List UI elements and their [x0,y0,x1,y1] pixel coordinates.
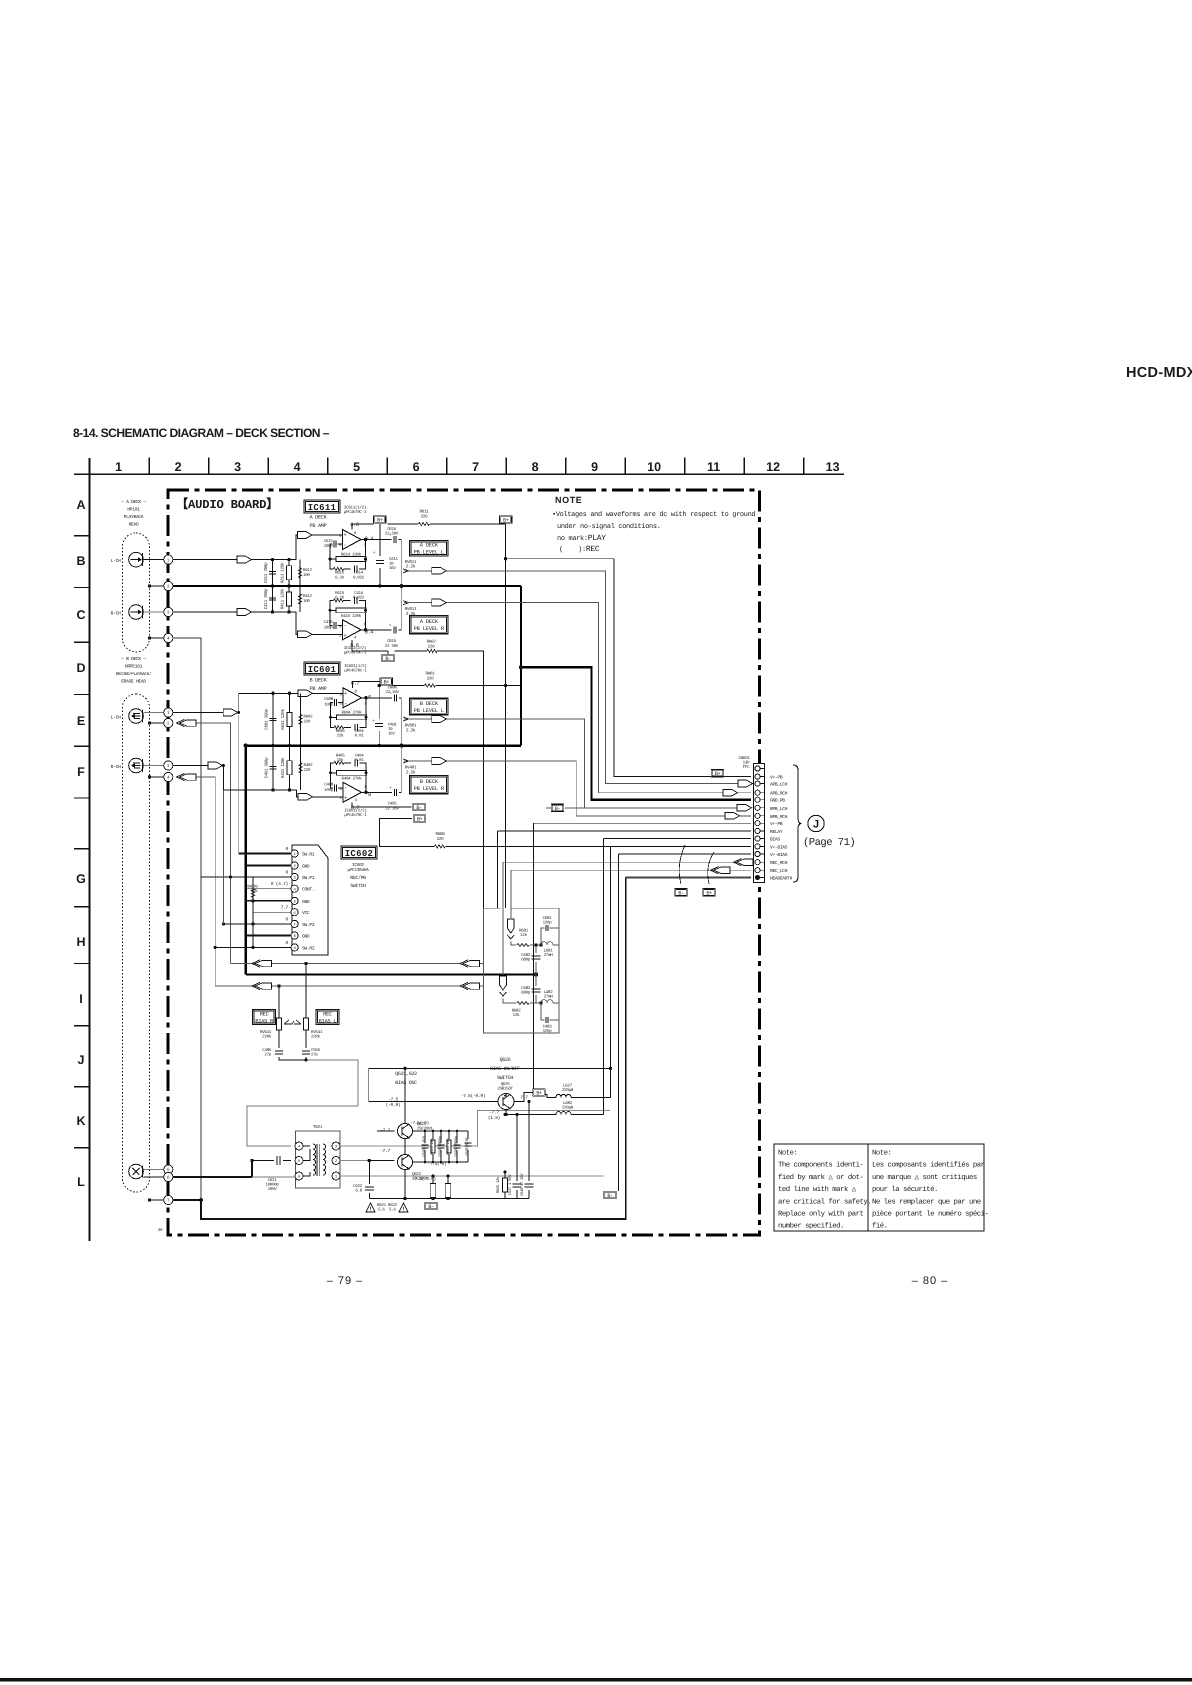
svg-text:REC/PB: REC/PB [350,875,366,881]
svg-text:BIAS: BIAS [770,837,780,843]
svg-text:220: 220 [304,768,311,773]
warning triangle 2 [399,1203,408,1212]
B+ rail IC611 [380,524,506,548]
svg-text:2.2k: 2.2k [406,728,416,734]
svg-text:C415: C415 [324,620,334,625]
connector brace [793,765,802,882]
wire erase head to pin 6 [143,1176,163,1178]
down arrow 1 [507,919,514,939]
svg-text:R621: R621 [377,1203,387,1208]
U-B1 IC601a level pot [401,698,403,746]
APB LCH run [404,571,751,784]
svg-text:27p: 27p [311,1053,318,1058]
svg-text:7: 7 [293,923,295,928]
svg-text:220: 220 [427,676,435,681]
V+ PB run [506,559,751,777]
CN601 pin 9 [755,828,760,833]
Q621 transistor [398,1124,413,1139]
C683 cap [535,975,537,1004]
svg-text:HP101: HP101 [127,507,140,513]
B+ box below arcs [703,889,716,897]
svg-text:100p: 100p [324,788,334,793]
svg-text:!: ! [369,1206,372,1213]
U-A2 IC611b output coupling cap [394,626,396,633]
U-A2 IC611b output wire [361,629,402,631]
Q622 base wire [369,1160,394,1162]
svg-text:C611 390p: C611 390p [264,562,269,583]
svg-text:5.6: 5.6 [389,1208,396,1213]
BPB LCH arrow near pin [737,804,752,811]
U-B2 IC601b output coupling cap [394,789,396,796]
IC611 supply decoupling cap CA11 [379,548,381,586]
svg-text:PB LEVEL R: PB LEVEL R [414,626,445,632]
wire pot to link [305,1057,307,1060]
U-B2 IC601b minus input cap [331,773,344,788]
svg-text:120p: 120p [543,1029,553,1034]
RV641 pot [279,986,306,1060]
BPB LCH run [404,719,751,808]
U-B2 IC601b feedback RC network [331,763,367,773]
svg-text:220: 220 [428,644,435,649]
T621 pin 4 [295,1142,303,1150]
svg-text:C41A: C41A [354,591,364,596]
svg-text:8: 8 [532,460,539,474]
bias osc voltage labels [403,1067,406,1070]
svg-text:Note:: Note: [778,1150,797,1158]
svg-text:B+: B+ [377,518,383,524]
T621 pin3 wire right [340,1111,603,1147]
svg-text:C621: C621 [268,1178,278,1183]
svg-text:F: F [77,765,85,779]
svg-text:B+: B+ [706,890,712,896]
U-B2 IC601b level pot [401,746,403,793]
svg-text:0.022: 0.022 [353,596,365,601]
U-A2 IC611b bias resistor [299,586,301,612]
wire link 1106 [247,1060,358,1146]
V+ PB supply run lower [533,823,751,1089]
svg-text:B DECK: B DECK [420,701,439,707]
svg-text:100V: 100V [268,1187,278,1192]
U-A1 IC611a feedback RC network [330,559,366,569]
REC BIAS R box [253,1010,276,1025]
R621 resistor [432,1176,434,1199]
BPB RCH run [404,761,751,816]
svg-text:Note:: Note: [872,1150,891,1158]
U-A1 IC611a input shunt resistor [288,560,290,586]
bias run [603,839,750,1111]
svg-text:R431 120k: R431 120k [280,757,286,778]
R625 resistor [504,1172,506,1199]
svg-text:HRPE101: HRPE101 [125,664,143,670]
U-A1 IC611a input shunt cap [272,560,274,586]
C682 cap [535,945,537,975]
svg-text:RV541: RV541 [311,1030,323,1035]
svg-text:H: H [76,935,85,949]
T621 pin 1 [332,1172,340,1180]
svg-text:CR16: CR16 [387,527,397,532]
svg-text:D: D [76,661,85,675]
A deck PB level R box [410,616,448,634]
svg-text:120p: 120p [543,921,553,926]
svg-text:V+-BIAS: V+-BIAS [770,844,788,850]
svg-text:R681: R681 [519,929,529,934]
svg-text:R612: R612 [303,568,313,573]
IC602 pin 9 SW.R2 [291,944,298,951]
B+ supply box IC601 lower [413,815,426,823]
APB LCH arrow near pin [738,780,753,787]
B deck PB level L box [410,698,448,715]
svg-text:R415: R415 [335,591,345,596]
svg-text:SW.R1: SW.R1 [302,852,315,858]
A-deck edge pin 1 [164,555,173,564]
svg-text:V+-PB: V+-PB [770,821,783,827]
svg-text:VCC: VCC [302,910,310,916]
svg-text:C485: C485 [262,1048,272,1053]
svg-text:G: G [76,872,86,886]
A deck L-CH head coil [129,552,144,567]
wire erase head to pin 5 [143,1169,163,1171]
svg-text:•Voltages and waveforms are dc: •Voltages and waveforms are dc with resp… [552,511,755,519]
svg-text:CR0N: CR0N [388,685,398,690]
B+ box on V+PB pin wire [711,769,724,777]
svg-text:0.01: 0.01 [355,734,365,739]
B- box on BPB LCH wire [551,804,564,812]
svg-text:ERASE HEAD: ERASE HEAD [121,679,146,685]
C681 cap [541,928,559,945]
svg-text:PB AMP: PB AMP [310,686,327,692]
U-A2 IC611b input signal arrow 1 [237,609,252,616]
REC BIAS L box [316,1010,339,1025]
svg-text:FFC: FFC [743,765,750,770]
audio board dash-dot border [168,490,760,1235]
B- wire IC601 [352,802,412,807]
svg-text:BIAS OSC: BIAS OSC [395,1080,417,1086]
svg-text:5: 5 [353,460,360,474]
B+ supply box right [500,516,513,524]
svg-text:IC602: IC602 [345,849,374,859]
svg-text:The components identi-: The components identi- [778,1161,863,1170]
svg-text:A DECK: A DECK [310,515,328,521]
svg-text:C405: C405 [388,802,398,807]
B deck record/playback/erase head outline [123,694,150,1192]
svg-text:APB_RCH: APB_RCH [770,791,788,797]
C555 cap [302,1051,310,1054]
CN601 pin 15 [755,875,760,880]
L627 inductor [545,1094,610,1097]
svg-text:R605: R605 [336,729,346,734]
svg-text:3: 3 [234,460,241,474]
B- box right [604,1191,617,1199]
APB RCH run [404,603,751,793]
U-A1 IC611a input signal arrow 2 [298,532,313,539]
A deck R-CH head coil [129,605,144,620]
svg-text:Replace only with part: Replace only with part [778,1210,863,1219]
U-B1 IC601a bias resistor [300,693,302,745]
svg-text:RELAY: RELAY [770,829,783,835]
svg-text:fié.: fié. [872,1222,888,1231]
svg-text:L-CH: L-CH [111,558,121,564]
T621 primary winding [313,1144,316,1175]
IC602 pin 2 GND [291,862,298,869]
svg-text:µPC4570C-1: µPC4570C-1 [344,510,367,515]
svg-text:0.01: 0.01 [355,758,365,763]
svg-text:220: 220 [421,514,429,519]
svg-text:C614: C614 [354,571,364,576]
svg-text:C401 390p: C401 390p [265,757,270,778]
svg-text:REC_LCH: REC_LCH [770,868,788,874]
CN601 pin 14 [755,868,760,873]
Q622 transistor [398,1155,413,1170]
crossing arc B- [679,845,685,884]
svg-text:une marque △ sont critiques: une marque △ sont critiques [872,1173,977,1182]
wire B-deck shield to pin 2 [148,721,151,724]
svg-text:7.7: 7.7 [281,905,289,911]
svg-text:GND_PB: GND_PB [770,798,785,804]
svg-text:L682: L682 [563,1101,573,1106]
page reference circle J [808,815,824,831]
headearth ground loop [173,878,626,1220]
svg-text:are critical for safety.: are critical for safety. [778,1197,871,1206]
svg-text:C: C [76,608,85,622]
U-A2 IC611b input shunt resistor [288,586,290,612]
U-B1 IC601a minus input cap [331,702,344,717]
IC602 pin 6 VCC [291,909,298,916]
svg-text:220µH: 220µH [562,1106,574,1111]
U-A2 IC611b feedback resistor [330,610,366,630]
B+ long vertical feed [505,524,507,908]
thick ground to connector [521,667,751,799]
R622 resistor [447,1176,449,1199]
op-amp U-B2 IC601b [343,782,362,802]
A-deck edge pin 3 [164,607,173,616]
bias emitter rail [369,1198,529,1200]
T621 pin 6 [295,1172,303,1180]
CN601 pin 11 [755,844,760,849]
svg-text:E: E [77,714,85,728]
svg-text:— A DECK —: — A DECK — [120,499,146,505]
U-A1 IC611a input wire from head [173,535,343,560]
thick ground vertical [520,586,522,746]
Q621 collector wire [404,1068,406,1198]
svg-text:C613: C613 [324,539,334,544]
svg-text:C683: C683 [521,986,531,991]
svg-text:100p: 100p [324,544,334,549]
erase edge pin 5 [164,1165,173,1174]
svg-text:B+: B+ [536,1091,542,1097]
B+ supply box IC601 [380,678,393,686]
svg-text:+: + [343,632,346,639]
L682f coil [541,1000,559,1003]
svg-text:R-CH: R-CH [111,610,121,616]
svg-text:( ):REC: ( ):REC [559,545,600,554]
U-A2 IC611b input signal arrow 2 [298,631,313,638]
svg-text:B+: B+ [503,518,509,524]
svg-text:B+: B+ [417,817,423,823]
svg-text:C622: C622 [353,1184,363,1189]
B-deck edge pin 1 [164,708,173,717]
B-deck edge pin 4 [164,772,173,781]
wire A-deck R-CH to pin 3 [143,611,163,613]
U-B2 IC601b input signal arrow 1 [208,762,223,769]
svg-text:5.6: 5.6 [378,1208,385,1213]
svg-text:PB LEVEL L: PB LEVEL L [414,708,444,714]
Q625 B+ box [533,1089,546,1097]
svg-text:C404: C404 [355,754,365,759]
U-B1 IC601a input shunt resistor [289,693,291,745]
filter network outline [484,908,559,1033]
svg-text:J: J [78,1053,85,1067]
T621 pin1 wire right [340,1111,610,1177]
thick ground rail A deck [173,585,521,587]
IC611 label box [304,500,340,513]
svg-text:SW.P2: SW.P2 [302,922,315,928]
svg-text:Ne les remplacer que par une: Ne les remplacer que par une [872,1197,981,1206]
svg-text:L627: L627 [563,1084,573,1089]
svg-text:HCD-MDX: HCD-MDX [1126,365,1192,381]
svg-text:REC: REC [323,1011,332,1017]
svg-text:B-: B- [385,656,391,662]
svg-text:J: J [813,819,819,831]
svg-text:22 16V: 22 16V [385,690,399,695]
svg-text:7: 7 [472,460,479,474]
T621 pin 3 [332,1142,340,1150]
left axis row ticks [74,536,89,1148]
RA12 220 rail [394,651,483,908]
U-B1 IC601a input signal arrow 2 [298,690,313,697]
grid header ticks [149,458,804,475]
svg-text:100: 100 [303,599,310,604]
RV541 pot [305,964,307,1049]
svg-text:13: 13 [826,460,840,474]
T621 pin wires [303,1146,345,1176]
IC601 supply decoupling cap CA01 [378,686,380,746]
svg-text:V+-BIAS: V+-BIAS [770,852,788,858]
svg-text:– 80 –: – 80 – [912,1275,949,1287]
svg-text:L681: L681 [544,949,554,954]
svg-text:BIAS R: BIAS R [255,1018,273,1024]
REC LCH run [511,870,751,918]
svg-text:R631 120k: R631 120k [280,708,286,729]
U-B2 IC601b input shunt resistor [289,746,291,790]
svg-text:APB_LCH: APB_LCH [770,782,788,788]
B- rail IC611 [352,640,388,654]
CN601 pin 12 [755,851,760,856]
B deck R-CH head coil [129,758,144,773]
B-deck edge pin 3 [164,761,173,770]
A-deck edge pin 2 [164,581,173,590]
bank C624 [440,1131,442,1162]
crossing arc B+ [708,852,714,884]
CN601 pin 4 [755,790,760,795]
svg-text:L-CH: L-CH [111,714,121,720]
svg-text:9: 9 [591,460,598,474]
B-deck R record wire down [196,777,215,986]
svg-text:16V: 16V [389,566,396,571]
svg-text:-7.5(-0.9): -7.5(-0.9) [461,1093,486,1099]
U-B1 IC601a feedback RC network [331,717,367,727]
U-B1 IC601a input signal arrow 1 [223,709,238,716]
R681 resistor [511,942,541,946]
svg-text:µPC4570C-1: µPC4570C-1 [344,668,367,673]
svg-text:-: - [343,622,346,629]
svg-text:number specified.: number specified. [778,1222,844,1231]
relay run [497,831,751,908]
svg-text:K: K [76,1114,85,1128]
svg-text:C628 6.81: C628 6.81 [465,1136,470,1155]
svg-text:— B DECK —: — B DECK — [120,656,146,662]
svg-text:SWITCH: SWITCH [350,883,366,889]
svg-text:CA01: CA01 [388,723,397,728]
svg-text:PB LEVEL R: PB LEVEL R [414,786,445,792]
svg-text:R622: R622 [388,1203,398,1208]
U-A1 IC611a minus input cap [330,544,343,559]
svg-text:B+: B+ [384,680,390,686]
Q621 base wire [377,1130,395,1132]
svg-text:R611 120k: R611 120k [280,562,286,583]
CN601 pin 3 [755,781,760,786]
U-B1 IC601a input shunt cap [272,693,274,745]
U-B2 IC601b input wire from head [173,766,343,797]
svg-text:R623 10k: R623 10k [430,1137,435,1154]
connector CN601 body [754,764,765,883]
svg-text:BIAS L: BIAS L [319,1018,337,1024]
down arrow 2 [500,976,507,996]
op-amp U-A1 IC611a [343,530,362,550]
signal arrow B-deck L-CH in [177,719,197,726]
svg-text:– 79 –: – 79 – [327,1275,364,1287]
wire B-deck shield to pin 7 [148,1198,151,1201]
svg-text:-7.7: -7.7 [380,1148,390,1154]
svg-text:(1.5): (1.5) [488,1115,500,1121]
svg-text:B DECK: B DECK [310,678,328,684]
svg-text:27mH: 27mH [544,953,554,958]
svg-text:B-: B- [678,890,684,896]
U-B1 IC601a output coupling cap [394,694,396,701]
B- supply box IC601 [413,803,426,811]
U-A2 IC611b input wire from head [173,612,343,634]
svg-text:Q625: Q625 [501,1082,511,1087]
svg-text:R402: R402 [304,763,314,768]
svg-text:SW.R2: SW.R2 [302,945,315,951]
U-A2 IC611b input shunt cap [272,586,274,612]
wire A-deck shield to pin 2 [148,584,151,587]
svg-text:R412: R412 [303,594,313,599]
wire A-deck shield to pin 4 [148,636,151,639]
wire B-deck L-CH to pin 1 [143,712,163,714]
REC R right arrow [460,960,480,967]
svg-text:-7.7: -7.7 [380,1128,390,1134]
APB RCH arrow [432,599,447,606]
IC602 pin 4 CONT. [291,885,298,892]
svg-text:10000p: 10000p [265,1183,279,1188]
CN601 pin 13 [755,860,760,865]
C485 cap [275,1051,283,1054]
Q625 wires [369,1068,611,1114]
svg-text:ted line with mark △: ted line with mark △ [778,1185,857,1194]
erase edge pin 7 [164,1195,173,1204]
svg-text:B-: B- [428,1204,434,1210]
bank C626 [424,1131,426,1162]
erase edge pin 6 [164,1172,173,1181]
T621 pin2 wire [340,1160,369,1162]
U-B1 IC601a feedback resistor [331,698,367,718]
U-A1 IC611a input signal arrow 1 [237,556,252,563]
B deck PB level R box [410,776,448,794]
L681 coil [541,942,559,945]
B- box below arcs [675,889,688,897]
svg-text:L482: L482 [544,990,554,995]
svg-text:under no-signal conditions.: under no-signal conditions. [557,523,661,531]
